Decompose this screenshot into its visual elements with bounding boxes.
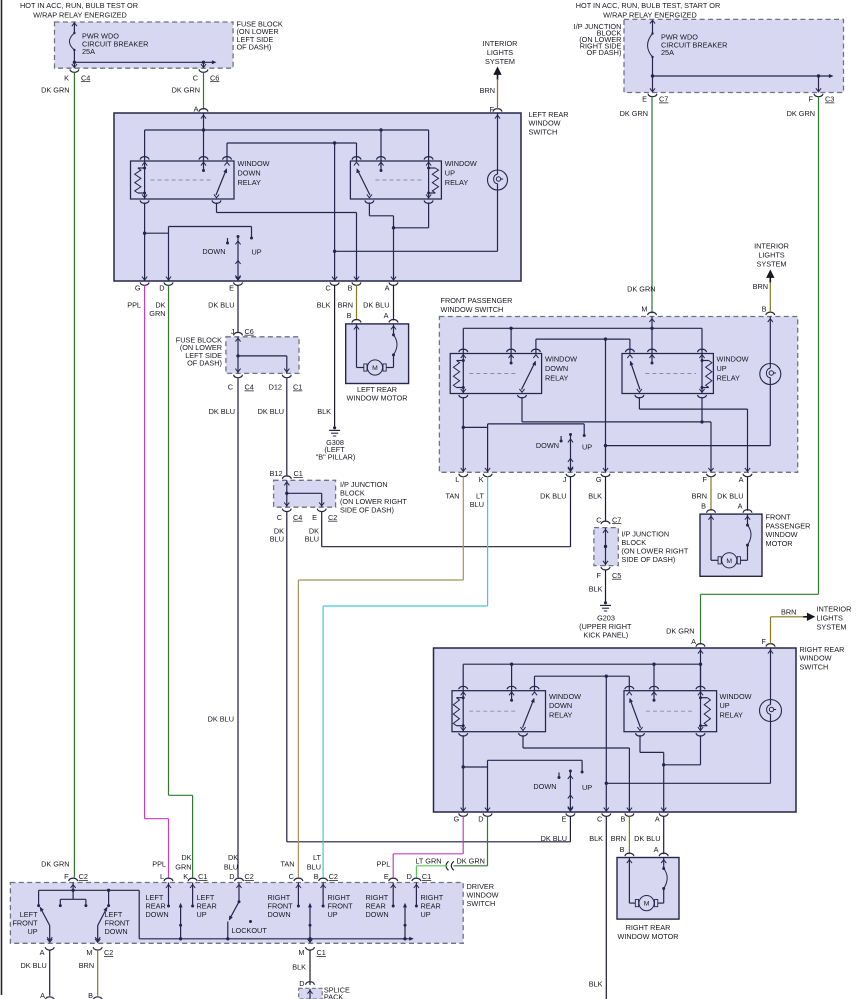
interior lights system arrow (middle, front passenger B) [754,242,789,284]
svg-text:C4: C4 [81,73,90,82]
wire DK BLU: front passenger switch A to motor [747,477,749,511]
svg-text:C: C [277,513,282,522]
svg-text:FRONT: FRONT [766,513,792,522]
switch box: left rear window switch [114,113,521,281]
svg-text:B: B [620,845,625,854]
svg-text:RELAY: RELAY [445,178,469,187]
wire DK BLU: left rear switch E to fuse block J/C6 [237,285,239,333]
bus1 wire (front passenger window switch) [463,327,702,354]
svg-text:SYSTEM: SYSTEM [817,623,847,632]
svg-text:GRN: GRN [175,862,191,871]
rocker actuator blade to E (right rear window switch) [568,770,573,813]
svg-text:DK GRN: DK GRN [41,859,69,868]
svg-text:LIGHTS: LIGHTS [817,614,843,623]
svg-text:OF DASH): OF DASH) [187,359,222,368]
terminal B connector (FRONT PASSENGER WINDOW MOTOR) [707,510,716,520]
motor symbol M (FRONT PASSENGER WINDOW MOTOR) [718,553,740,568]
svg-text:J: J [231,327,235,336]
title: FRONT PASSENGER WINDOW SWITCH [441,296,513,314]
svg-text:BLU: BLU [470,500,484,509]
svg-text:DOWN: DOWN [268,910,291,919]
svg-text:PPL: PPL [377,859,391,868]
connector E C7 (I/P junction block) [642,88,668,103]
svg-text:M: M [726,558,732,565]
wire: up-relay coil bottom jog (right rear window switch) [662,735,701,766]
svg-text:B: B [762,305,767,314]
svg-text:A: A [739,475,744,484]
svg-text:A: A [655,815,660,824]
svg-text:WINDOW: WINDOW [445,159,477,168]
motor box: RIGHT REAR WINDOW MOTOR [617,858,679,920]
motor box: LEFT REAR WINDOW MOTOR [346,324,409,384]
coil (WINDOW|DOWN|RELAY) [453,691,464,732]
svg-text:KICK PANEL): KICK PANEL) [583,631,628,640]
svg-text:F: F [490,105,495,114]
right rear switch bottom wire labels [541,834,661,843]
switch box: front passenger window switch [439,317,797,473]
coil (WINDOW|UP|RELAY) [427,161,438,199]
front passenger switch top labels M / B [627,282,768,314]
driver switch top wire labels [41,853,390,871]
small I/P junction internal wire [603,528,608,566]
wire: D-line with rocker feed (front passenger window switch) [488,424,586,472]
motor symbol M (LEFT REAR WINDOW MOTOR) [364,360,386,375]
svg-text:DK BLU: DK BLU [258,407,284,416]
motor leads (FRONT PASSENGER WINDOW MOTOR) [711,514,751,560]
driver switch bottom connector M C1 [298,939,325,957]
label: WINDOW|DOWN|RELAY [549,692,581,720]
rocker switch DOWN contact (right rear window switch) [558,773,561,780]
bus2 wire (left rear window switch) [227,141,357,161]
mechanical linkage dashed (WINDOW|DOWN|RELAY) [469,373,516,375]
svg-text:D: D [299,979,304,988]
wire PPL: left rear switch G to driver switch L [145,285,169,877]
svg-text:DK GRN: DK GRN [41,86,69,95]
wire: C-line bus2 to bottom (front passenger window switch) [604,339,607,472]
left rear switch bottom wire labels [127,301,389,318]
svg-text:LEFT REAR: LEFT REAR [357,385,397,394]
wire: down-relay coil bottom to G output (right rear window switch) [462,735,488,812]
terminal power-in top (left rear window switch) [199,109,208,161]
svg-text:DK GRN: DK GRN [172,86,200,95]
I/P junction block box (mid) [274,480,336,507]
svg-text:PPL: PPL [152,859,166,868]
wire: D-line with rocker feed (right rear window switch) [488,760,584,812]
svg-text:SWITCH: SWITCH [467,899,496,908]
label: I/P JUNCTION BLOCK (ON LOWER RIGHT SIDE OF DASH) mid [340,480,407,515]
wire LT BLU: front passenger switch K to driver switch B [323,477,488,878]
wire: up-relay coil bottom jog (left rear window switch) [392,203,429,230]
svg-text:WINDOW: WINDOW [800,654,832,663]
svg-text:UP: UP [328,910,338,919]
wire DK BLU: fuse D12/C1 to I/P junction B12/C1 [286,378,288,476]
svg-text:SWITCH: SWITCH [529,127,558,136]
svg-text:WINDOW: WINDOW [545,355,577,364]
svg-text:WINDOW: WINDOW [467,891,499,900]
wire: down-relay coil bottom to G output (left rear window switch) [143,203,169,282]
label DOWN / UP (front passenger window switch) [536,441,592,452]
svg-text:DK BLU: DK BLU [208,301,234,310]
relay terminal connectors (WINDOW|UP|RELAY) [352,157,433,204]
label: HOT IN ACC (top left) [20,1,138,19]
svg-text:RIGHT REAR: RIGHT REAR [626,923,671,932]
svg-text:C: C [228,383,233,392]
svg-text:WINDOW: WINDOW [720,692,752,701]
svg-text:OF DASH): OF DASH) [237,43,272,52]
wire DK BLU: junction C/C4 to right rear switch E [287,512,571,842]
svg-text:D: D [478,815,483,824]
svg-text:SYSTEM: SYSTEM [756,260,786,269]
svg-text:A: A [40,991,45,999]
svg-text:G: G [135,284,141,293]
front passenger switch bottom wire labels [445,492,743,509]
wire DK GRN: I/P E/C7 to front passenger switch M [651,97,653,314]
bottom terminal letters (right rear window switch) [454,815,660,824]
connector E C2 (mid I/P junction) [312,509,337,522]
svg-text:E: E [312,513,317,522]
svg-text:RELAY: RELAY [720,711,744,720]
wire: down-relay coil bottom to G output (front passenger window switch) [462,397,488,472]
svg-text:DK BLU: DK BLU [717,492,743,501]
svg-text:W/RAP RELAY ENERGIZED: W/RAP RELAY ENERGIZED [33,11,127,20]
bottom terminal letters (left rear window switch) [135,284,390,293]
switch blade (WINDOW|DOWN|RELAY) [216,168,227,195]
bottom terminal connectors (left rear window switch) [140,277,398,286]
svg-text:LT GRN: LT GRN [415,856,441,865]
svg-text:A: A [691,637,696,646]
svg-text:BLU: BLU [224,862,238,871]
bottom connector B (page edge) [88,991,102,999]
svg-text:PASSENGER: PASSENGER [766,521,811,530]
svg-text:LIGHTS: LIGHTS [758,251,784,260]
svg-text:A: A [384,311,389,320]
rocker switch DOWN contact (left rear window switch) [226,238,229,245]
label: FRONT PASSENGER WINDOW MOTOR [766,513,811,548]
svg-text:LT: LT [313,853,322,862]
svg-text:BLU: BLU [307,862,321,871]
svg-text:B: B [314,872,319,881]
svg-text:B: B [701,501,706,510]
ground G308 [316,426,356,461]
wire: C-line bus2 to bottom (right rear window switch) [605,676,608,812]
mechanical linkage dashed (WINDOW|UP|RELAY) [645,373,696,375]
lockout switch (driver) [228,902,252,939]
svg-text:LOCKOUT: LOCKOUT [232,926,268,935]
mid terminal stub (WINDOW|DOWN|RELAY) [509,691,514,702]
motor leads (LEFT REAR WINDOW MOTOR) [357,324,398,368]
wire BRN: interior lights to front passenger switch B [769,282,771,313]
svg-text:C1: C1 [317,948,326,957]
svg-text:F: F [64,872,69,881]
connector C C4 (mid fuse block) [228,375,254,392]
svg-text:DK BLU: DK BLU [540,492,566,501]
driver switch rocker risers [179,903,407,939]
svg-text:RELAY: RELAY [545,373,569,382]
driver switch top connectors [64,872,431,888]
wire: lamp bottom leg (right rear window switch) [606,722,770,784]
bottom connector A (page edge) [40,991,54,999]
svg-text:C6: C6 [210,73,219,82]
label: WINDOW|UP|RELAY [445,159,477,187]
fuse block box (top left, on lower left side of dash) [55,22,234,68]
svg-text:C4: C4 [293,513,302,522]
svg-text:F: F [703,475,708,484]
motor terminal letters (right rear) [620,845,659,854]
svg-text:G: G [596,475,602,484]
bottom terminal connectors (front passenger window switch) [459,468,752,477]
connector D12 C1 (mid fuse block) [269,375,303,392]
label LEFT FRONT DOWN [105,910,131,936]
svg-text:DK GRN: DK GRN [666,626,694,635]
svg-text:L: L [455,475,459,484]
I/P junction block box (top right) [624,19,844,92]
relay terminal connectors (WINDOW|UP|RELAY) [625,349,706,398]
svg-text:M: M [644,901,650,908]
wire BLK: right rear switch C to bottom of page [605,816,607,999]
svg-text:DK BLU: DK BLU [363,301,389,310]
svg-text:WINDOW: WINDOW [529,119,561,128]
svg-text:PPL: PPL [127,301,141,310]
svg-text:C1: C1 [422,872,431,881]
svg-text:E: E [384,872,389,881]
label: WINDOW|DOWN|RELAY [238,159,270,187]
label: WINDOW|DOWN|RELAY [545,355,577,383]
label: WINDOW|UP|RELAY [717,355,749,383]
bus2 wire (right rear window switch) [535,675,630,691]
svg-text:DOWN: DOWN [238,168,261,177]
svg-text:UP: UP [421,910,431,919]
labels DK BLU below mid I/P junction [270,527,319,544]
svg-text:BLK: BLK [589,834,603,843]
wire BLK: driver M/C1 to splice pack [309,950,311,985]
svg-text:UP: UP [27,927,37,936]
mid I/P junction internal wires [284,480,324,507]
svg-text:E: E [642,95,647,104]
svg-text:TAN: TAN [280,859,294,868]
svg-text:C4: C4 [245,383,254,392]
svg-text:BRN: BRN [692,492,707,501]
svg-text:WINDOW: WINDOW [549,692,581,701]
mid terminal stub (WINDOW|UP|RELAY) [378,161,383,172]
svg-text:"B" PILLAR): "B" PILLAR) [316,453,356,462]
svg-text:RELAY: RELAY [549,711,573,720]
svg-text:DOWN: DOWN [105,927,128,936]
connector D (splice pack) [299,979,314,988]
svg-text:M: M [298,948,304,957]
svg-text:DK BLU: DK BLU [208,715,234,724]
svg-text:UP: UP [582,783,592,792]
connector F C3 (I/P junction block) [809,88,835,103]
rocker actuator blade to E (left rear window switch) [235,235,240,281]
title: RIGHT REAR WINDOW SWITCH [800,645,845,671]
svg-text:K: K [183,872,188,881]
wire DK BLU: fuse C/C4 to driver switch D [237,378,239,877]
driver switch group labels [146,893,444,919]
relay terminal connectors (WINDOW|UP|RELAY) [625,686,705,736]
svg-text:DK GRN: DK GRN [627,285,655,294]
wire DK GRN: fuse K/C4 to driver switch F [73,72,75,877]
labels BRN / F (left rear F) [480,86,495,114]
mid terminal stub (WINDOW|UP|RELAY) [651,691,656,702]
label: RIGHT REAR WINDOW MOTOR [617,923,678,941]
relay box: WINDOW|DOWN|RELAY [131,161,235,199]
relay terminal connectors (WINDOW|DOWN|RELAY) [140,157,231,204]
svg-text:HOT IN ACC, RUN, BULB TEST, ST: HOT IN ACC, RUN, BULB TEST, START OR [576,1,720,10]
svg-text:B: B [621,815,626,824]
svg-text:DK GRN: DK GRN [787,109,815,118]
wire DK GRN: left rear switch D to driver switch K [169,285,193,877]
label DOWN / UP (left rear window switch) [202,247,261,257]
svg-text:B12: B12 [270,469,283,478]
wire DK GRN: fuse C/C6 to left rear switch A [203,72,205,109]
svg-text:BLK: BLK [317,407,331,416]
svg-text:HOT IN ACC, RUN, BULB TEST OR: HOT IN ACC, RUN, BULB TEST OR [20,1,138,10]
svg-text:WINDOW MOTOR: WINDOW MOTOR [346,394,407,403]
label DOWN / UP (right rear window switch) [533,782,592,792]
relay box: WINDOW|UP|RELAY [624,691,717,732]
svg-text:SIDE OF DASH): SIDE OF DASH) [340,506,394,515]
relay terminal connectors (WINDOW|DOWN|RELAY) [459,686,539,736]
svg-text:DOWN: DOWN [536,441,559,450]
label LEFT FRONT UP [12,910,38,936]
svg-text:C2: C2 [245,872,254,881]
driver switch bottom connector M C2 [86,939,113,957]
wire: lamp bottom leg (front passenger window switch) [606,385,771,446]
label: I/P JUNCTION BLOCK (ON LOWER RIGHT SIDE OF DASH) small [621,530,688,565]
svg-text:K: K [64,73,69,82]
svg-text:DOWN: DOWN [146,910,169,919]
mid fuse block internal wires [235,337,289,374]
svg-text:25A: 25A [82,47,95,56]
svg-text:UP: UP [445,168,455,177]
svg-text:M: M [86,948,92,957]
svg-text:F: F [597,571,602,580]
svg-text:A: A [654,845,659,854]
svg-text:DRIVER: DRIVER [467,882,495,891]
relay box: WINDOW|UP|RELAY [350,161,441,199]
svg-text:WINDOW: WINDOW [766,530,798,539]
rocker switch DOWN contact (front passenger window switch) [560,436,563,443]
svg-text:DOWN: DOWN [202,247,225,256]
svg-text:B: B [347,311,352,320]
svg-text:J: J [563,475,567,484]
wire: I/P junction internal bus with arrow [651,74,834,93]
relay terminal connectors (WINDOW|DOWN|RELAY) [459,349,541,398]
svg-text:SYSTEM: SYSTEM [485,57,515,66]
switch blade (WINDOW|UP|RELAY) [356,168,370,195]
motor leads (RIGHT REAR WINDOW MOTOR) [629,858,667,904]
wire DK BLU: junction E/C2 to front passenger switch J [322,477,571,547]
terminal lamp-feed top (front passenger window switch) [766,312,775,363]
labels DK BLU below mid fuse block [209,407,284,416]
wire: up-relay common to output (left rear window switch) [369,203,393,282]
svg-text:FRONT PASSENGER: FRONT PASSENGER [441,296,513,305]
motor terminal letters (left rear) [347,311,389,320]
terminal A connector (RIGHT REAR WINDOW MOTOR) [659,853,668,863]
svg-text:E: E [562,815,567,824]
terminal power-in top (right rear window switch) [696,644,705,691]
wire LT GRN: splice to driver switch D/C1 [416,866,447,878]
mechanical linkage dashed (WINDOW|DOWN|RELAY) [469,710,517,712]
svg-text:DK BLU: DK BLU [20,961,46,970]
rocker actuator blade to E (front passenger window switch) [568,433,573,472]
driver bottom wire labels [20,961,306,972]
svg-text:F: F [809,95,814,104]
connector K C4 (fuse block) [64,64,90,82]
relay box: WINDOW|DOWN|RELAY [450,354,541,394]
svg-text:INTERIOR: INTERIOR [754,242,789,251]
svg-text:C2: C2 [329,872,338,881]
svg-text:WINDOW MOTOR: WINDOW MOTOR [617,932,678,941]
svg-text:LIGHTS: LIGHTS [487,48,513,57]
label: FUSE BLOCK (ON LOWER LEFT SIDE OF DASH) mid [176,336,222,368]
connector F C5 (small I/P junction) [597,567,622,580]
svg-text:SWITCH: SWITCH [800,662,829,671]
wire: D-line with rocker feed (left rear window switch) [169,227,254,282]
connector B12 C1 (I/P junction mid) [270,469,303,479]
connector C C6 (fuse block) [193,64,220,82]
fuse block box (mid left) [226,337,299,374]
mechanical linkage dashed (WINDOW|UP|RELAY) [646,710,695,712]
svg-text:UP: UP [582,443,592,452]
svg-text:C2: C2 [79,872,88,881]
wire PPL: right rear switch G to driver switch E [393,816,463,877]
terminal power-in top (front passenger window switch) [648,312,657,353]
svg-text:UP: UP [252,248,262,257]
splice pack internal arrow [307,989,312,999]
svg-text:C2: C2 [328,513,337,522]
svg-text:DK GRN: DK GRN [620,109,648,118]
svg-text:C3: C3 [825,95,834,104]
svg-text:RIGHT REAR: RIGHT REAR [800,645,845,654]
svg-text:RELAY: RELAY [238,178,262,187]
svg-text:DOWN: DOWN [533,782,556,791]
svg-text:BLK: BLK [589,584,603,593]
driver window switch box [10,883,463,944]
svg-text:C: C [597,815,602,824]
splice symbol [446,861,454,870]
right rear switch top labels A / F [666,626,766,646]
svg-text:B: B [88,991,93,999]
svg-text:F: F [762,637,767,646]
driver switch rocker terminal drops [167,883,418,908]
svg-text:DK: DK [228,853,238,862]
terminal A connector (LEFT REAR WINDOW MOTOR) [389,320,398,330]
terminal lamp-feed top (left rear window switch) [493,109,502,170]
interior lights system arrow (top, left rear F) [483,39,518,80]
svg-text:25A: 25A [661,48,674,57]
svg-text:WINDOW: WINDOW [717,355,749,364]
driver switch bottom bus [139,937,414,941]
wire: lamp bottom leg (left rear window switch) [335,190,498,251]
wire BRN: driver M to bottom connector [97,950,99,996]
wire: A-line continues through bus1 to up-relay coil (right rear) [700,664,702,691]
wire: fuse block internal bus with arrow [73,60,217,68]
svg-text:C7: C7 [612,515,621,524]
svg-text:WINDOW SWITCH: WINDOW SWITCH [441,305,504,314]
svg-text:E: E [229,284,234,293]
svg-text:C: C [289,872,294,881]
mid terminal stub (WINDOW|DOWN|RELAY) [509,354,514,365]
svg-text:BRN: BRN [79,961,94,970]
label: HOT IN ACC (top right) [576,1,720,19]
page border line (left edge) [1,0,3,995]
relay box: WINDOW|DOWN|RELAY [452,691,546,732]
wire: up-relay common to output (front passenger window switch) [639,397,747,472]
svg-text:D: D [159,284,164,293]
svg-text:G: G [454,815,460,824]
svg-text:C1: C1 [293,383,302,392]
